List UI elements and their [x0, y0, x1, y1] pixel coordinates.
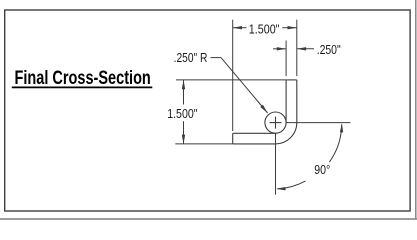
profile bottom surface of horizontal leg — [233, 143, 276, 145]
arrowhead 90 arc top (points up) — [340, 123, 343, 132]
vertical 1.500 dim line upper segment — [183, 80, 185, 105]
.250 dim left arrow tail — [273, 48, 286, 50]
90 deg horizontal extension line — [286, 122, 350, 124]
vertical 1.500 dim line lower segment — [183, 121, 185, 144]
svg-text:1.500": 1.500" — [249, 23, 280, 37]
profile top surface of horizontal leg — [233, 132, 276, 134]
90 deg arc upper segment — [329, 124, 341, 162]
profile inner (left) surface of vertical leg — [285, 80, 287, 123]
title underline — [12, 86, 153, 88]
arrowhead .250 right (points left) — [297, 47, 306, 50]
arrowhead 90 arc bottom (points left) — [276, 187, 286, 190]
profile outer bend arc — [276, 123, 297, 144]
arrowhead vertical dim up — [182, 80, 185, 89]
page edge line right — [415, 0, 417, 219]
radius leader diagonal segment — [221, 58, 268, 113]
profile top end cap — [286, 79, 297, 81]
svg-text:1.500": 1.500" — [167, 107, 197, 121]
arrowhead top dim right — [288, 26, 297, 29]
profile left end cap — [232, 133, 234, 144]
top 1.500 dim line left segment — [233, 27, 247, 29]
bend center mark cross — [270, 117, 282, 129]
svg-text:90°: 90° — [314, 163, 330, 177]
extension line right of top 1.500 dim — [296, 20, 298, 76]
svg-text:.250" R: .250" R — [174, 51, 208, 65]
vertical 1.500 dim bottom extension line — [175, 143, 232, 145]
.250 dim right arrow tail — [297, 48, 314, 50]
arrowhead .250 left (points right) — [277, 47, 286, 50]
90 deg vertical extension line — [275, 133, 277, 195]
svg-text:.250": .250" — [317, 43, 341, 57]
90 deg arc lower segment — [277, 181, 305, 189]
arrowhead radius leader — [260, 105, 267, 113]
profile outer (right) surface of vertical leg — [296, 80, 298, 123]
bend radius full circle — [265, 112, 286, 133]
vertical 1.500 dim top extension line — [176, 79, 286, 81]
arrowhead vertical dim down — [182, 135, 185, 144]
extension line left of top 1.500 dim — [232, 20, 234, 131]
radius leader horizontal segment — [211, 57, 222, 59]
extension line inner surface for .250 dim — [285, 41, 287, 77]
arrowhead top dim left — [233, 26, 242, 29]
page edge line bottom — [0, 218, 417, 220]
svg-text:Final Cross-Section: Final Cross-Section — [15, 68, 151, 89]
top 1.500 dim line right segment — [282, 27, 297, 29]
